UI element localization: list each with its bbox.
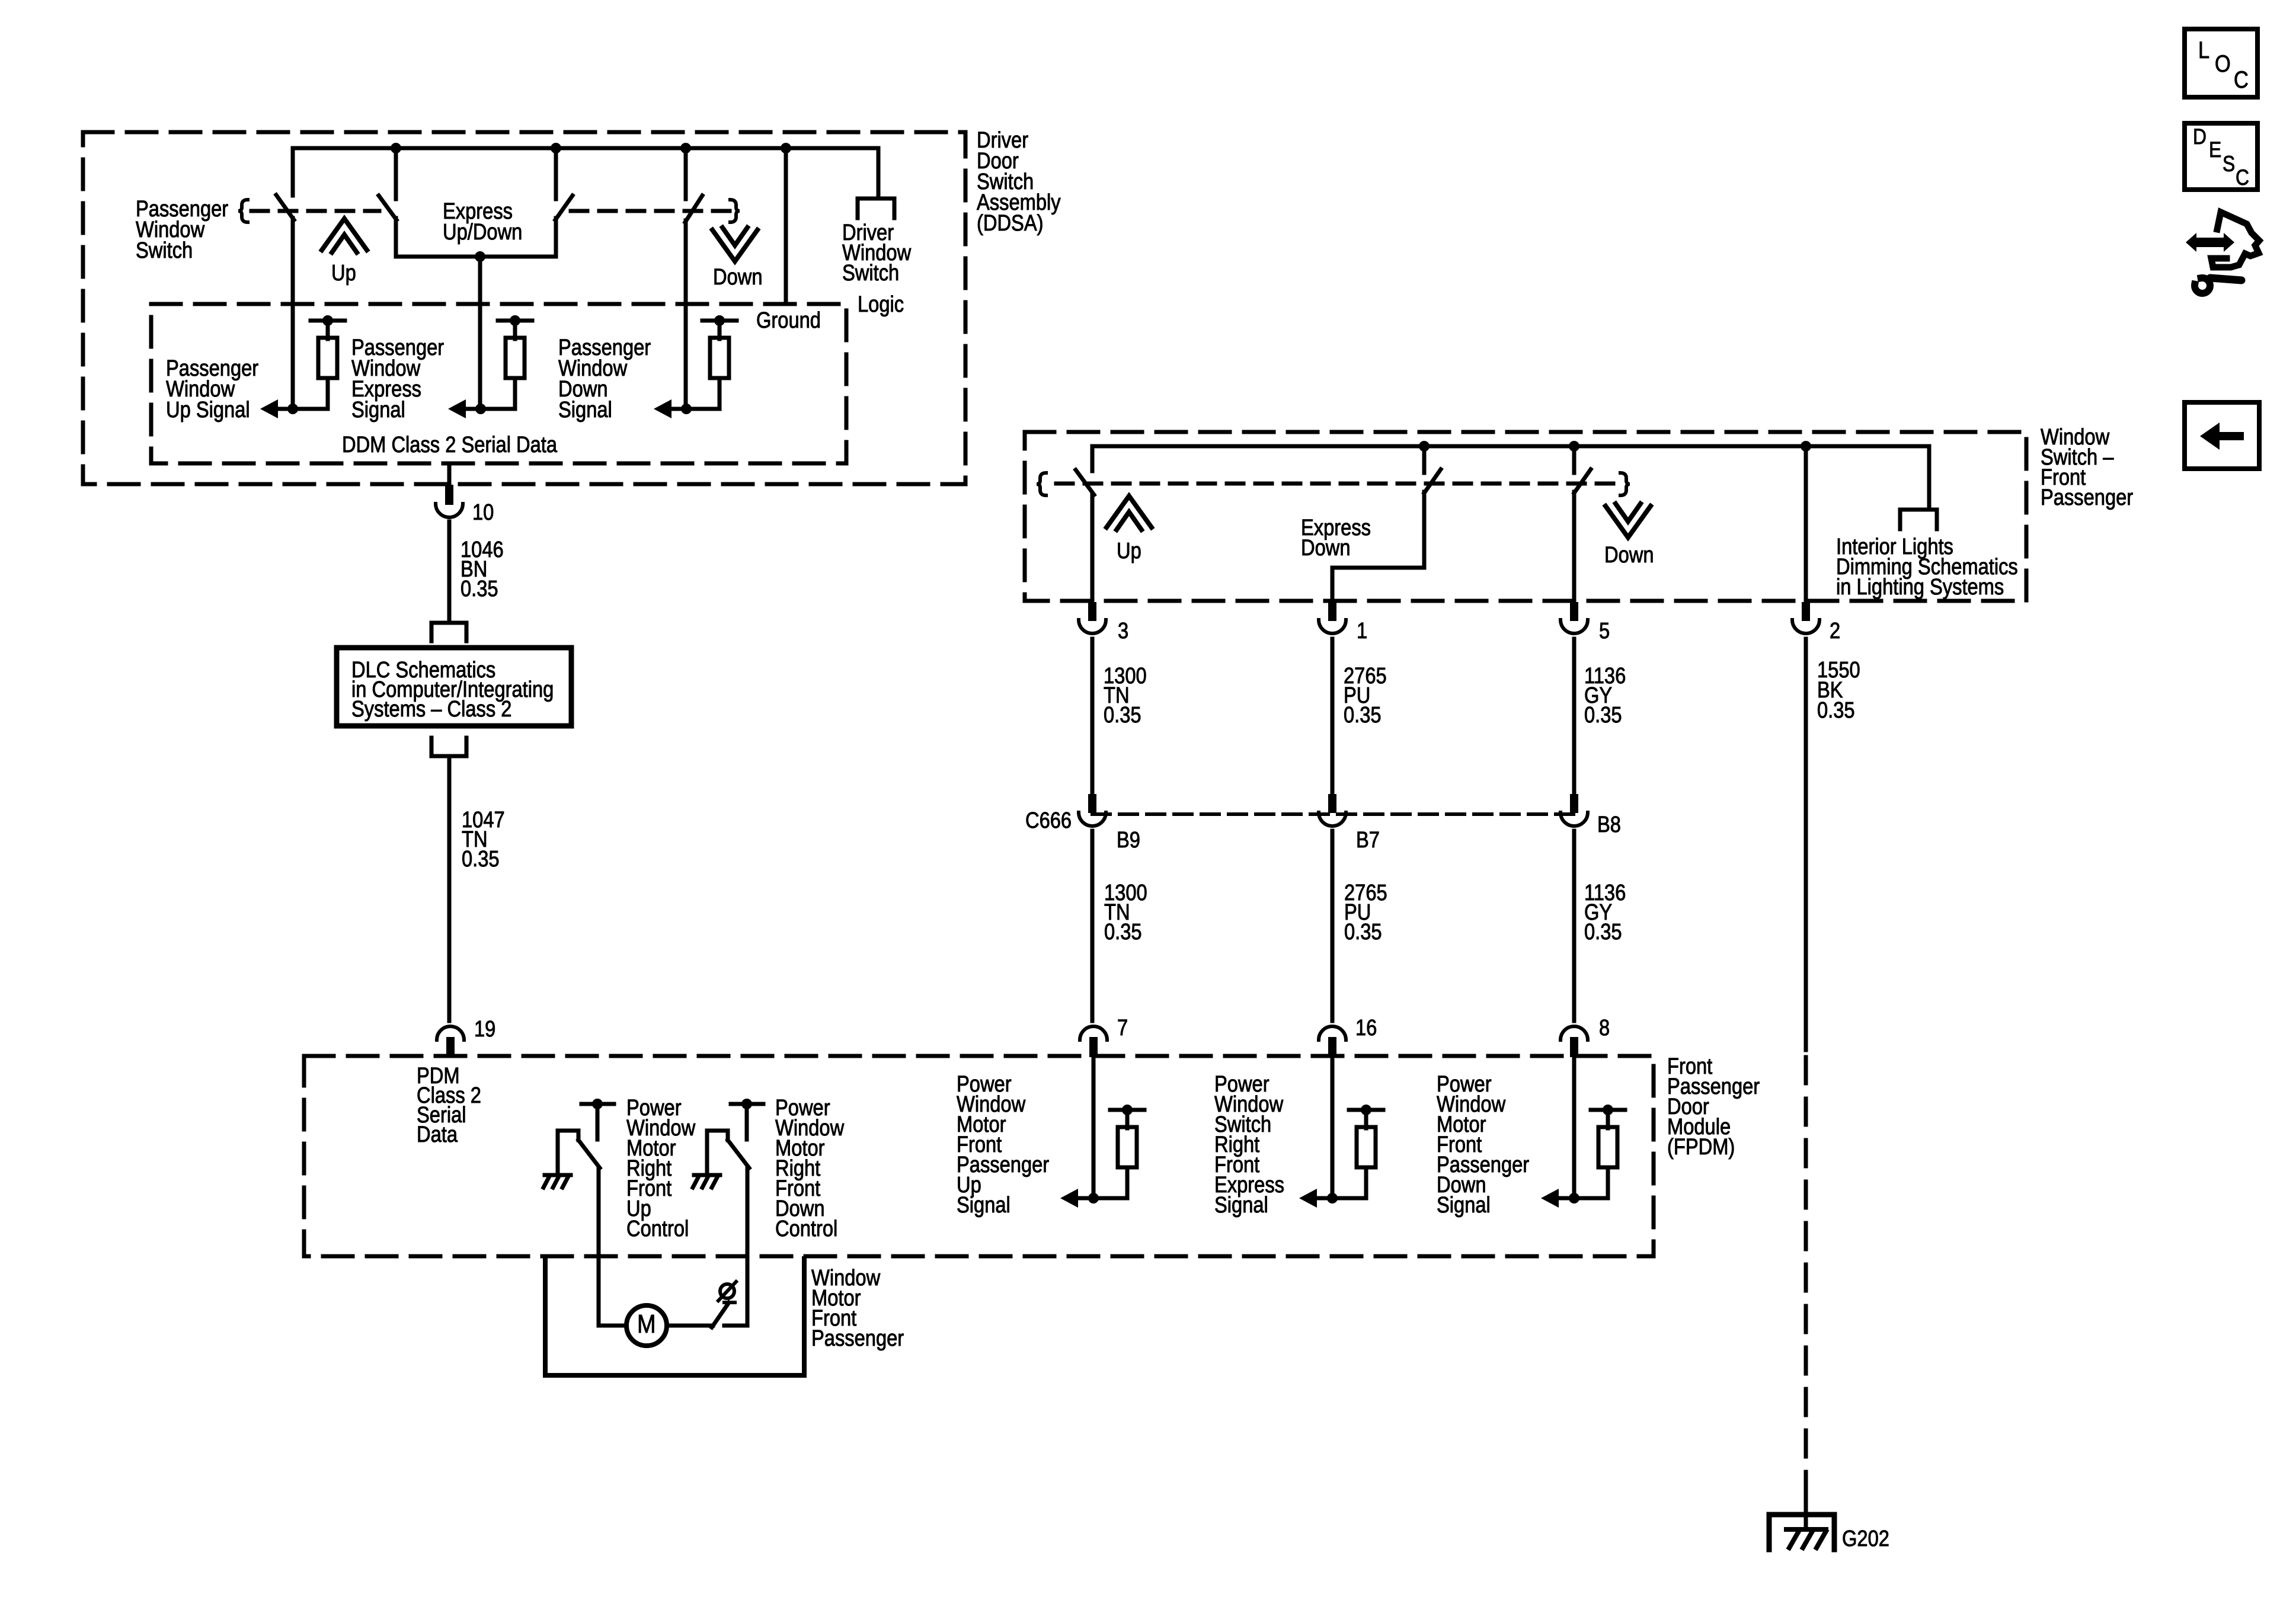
arrow passenger window down signal [654,399,671,418]
svg-text:0.35: 0.35 [1584,702,1622,728]
pin 8 connector [1560,1026,1588,1040]
motor M window motor front passenger [626,1305,667,1346]
bus wire window switch [1092,444,1929,449]
up arrow chevron window switch [1107,496,1152,527]
pin 10 connector [436,504,463,517]
wire 2765 PU lower [1331,831,1335,1021]
svg-text:0.35: 0.35 [462,846,500,872]
svg-text:Signal: Signal [1437,1192,1491,1218]
express up/down switch right side [554,148,558,199]
express box bottom wire [396,255,556,259]
pin 1 connector [1319,620,1346,633]
svg-text:Passenger: Passenger [2041,485,2133,510]
connector bracket above DLC box [431,623,466,641]
svg-text:0.35: 0.35 [1344,919,1382,945]
interior lights symbol [1900,510,1937,529]
connector bracket below DLC box [431,738,466,756]
wire thermal switch to down control [724,1324,747,1328]
svg-text:C: C [2236,166,2249,190]
svg-text:O: O [2215,50,2231,77]
svg-text:3: 3 [1118,618,1128,644]
resistor passenger window up signal [311,319,345,323]
signal wire pin into FPDM x=1845 [1092,1057,1096,1198]
brace left DDSA [238,200,248,222]
brace left window switch [1037,473,1046,495]
svg-text:Up/Down: Up/Down [443,219,522,245]
arrow Power Window Motor Front Passenger Up Signal [1060,1189,1078,1208]
wrench repair icon [2195,278,2210,293]
pin 5 male stub [1570,602,1578,621]
svg-text:M: M [637,1309,656,1338]
ground Power Window Motor Right Front Up Control [545,1173,571,1177]
Power Window Motor Right Front Up Control contact [581,1102,614,1106]
junction bus at pin 2 wire [1801,441,1811,452]
pin 1 male stub [1328,602,1336,621]
wire 1550 BK dashed to ground [1804,1057,1808,1505]
svg-text:G202: G202 [1842,1526,1889,1551]
C666 male stub [1328,794,1336,813]
pin 7 connector [1080,1026,1107,1040]
svg-text:8: 8 [1599,1015,1610,1041]
svg-text:5: 5 [1599,618,1610,644]
junction Power Window Motor Front Passenger Down Signal [1569,1193,1579,1204]
svg-text:Signal: Signal [558,397,612,422]
svg-text:10: 10 [472,500,494,525]
svg-text:Down: Down [1301,535,1351,561]
hand outline repair icon [2211,212,2259,267]
svg-text:Signal: Signal [1214,1192,1268,1218]
ground G202 symbol [1769,1515,1834,1550]
DESC icon box [2185,123,2257,190]
motor loop wire [545,1259,804,1375]
pin 3 connector [1079,620,1106,633]
FPDM Front Passenger Door Module dashed box [304,1056,1654,1256]
svg-text:Up: Up [1117,538,1141,564]
resistor passenger window express signal [498,319,532,323]
svg-text:Passenger: Passenger [811,1326,904,1351]
svg-text:Down: Down [713,264,763,290]
pin 2 male stub [1802,602,1810,621]
svg-text:Data: Data [417,1122,458,1147]
svg-text:Switch: Switch [136,238,193,263]
junction down signal [681,404,692,414]
junction on bus at ground wire [781,143,791,153]
svg-text:DDM Class 2 Serial Data: DDM Class 2 Serial Data [342,432,557,457]
wire 1550 BK solid [1804,639,1808,1050]
svg-text:Control: Control [626,1216,689,1241]
svg-text:0.35: 0.35 [1104,702,1141,728]
junction up signal [287,404,298,414]
junction on bus at express right [551,143,561,153]
down arrow chevron DDSA [712,230,757,261]
wire motor to thermal switch [667,1324,713,1328]
thermal switch blade [712,1302,729,1327]
C666 male stub [1088,794,1096,813]
express up/down switch left side [394,148,398,199]
resistor Power Window Motor Front Passenger Down Signal [1591,1108,1625,1112]
pin 3 male stub [1088,602,1096,621]
down arrow chevron window switch [1606,506,1651,537]
svg-text:0.35: 0.35 [1104,919,1142,945]
C666 connector row dashed line [1092,812,1574,816]
wire 1136 GY lower [1572,831,1576,1021]
svg-text:Switch: Switch [842,260,899,286]
svg-text:Up Signal: Up Signal [166,397,250,422]
svg-text:Logic: Logic [858,292,904,317]
signal wire pin into FPDM x=2656 [1572,1057,1576,1198]
wire down control to motor circuit [746,1168,750,1326]
driver window switch logic symbol [858,199,894,218]
svg-text:(DDSA): (DDSA) [977,210,1044,236]
svg-text:Down: Down [1604,542,1654,568]
junction express signal [475,404,486,414]
svg-text:C666: C666 [1025,808,1072,833]
thermal protector circle slash [720,1284,734,1298]
pin 19 male stub [446,1037,455,1057]
bus wire DDSA [293,146,878,151]
mechanical coupling dashed line DDSA left [251,209,379,213]
wire bus to interior lights [1927,446,1932,510]
wire 1047 TN [447,756,452,1021]
pin 19 connector [437,1026,464,1040]
svg-text:Signal: Signal [957,1192,1011,1218]
resistor Power Window Switch Right Front Express Signal [1349,1108,1383,1112]
wire express to DDM [478,257,482,409]
up switch window switch front passenger [1091,446,1095,471]
svg-text:Ground: Ground [756,308,821,333]
svg-text:B7: B7 [1356,827,1380,853]
svg-text:Signal: Signal [351,397,405,422]
express down switch [1422,447,1427,473]
arrow passenger window express signal [448,399,466,418]
Window Switch Front Passenger dashed box [1025,432,2026,601]
pin 7 male stub [1089,1037,1098,1057]
svg-text:1: 1 [1357,618,1367,644]
svg-text:0.35: 0.35 [1584,919,1622,945]
ground Power Window Motor Right Front Down Control [694,1173,720,1177]
resistor Power Window Motor Front Passenger Up Signal [1110,1108,1144,1112]
DDSA Driver Door Switch Assembly dashed box [83,132,965,484]
arrow Power Window Switch Right Front Express Signal [1299,1189,1317,1208]
pin 8 male stub [1570,1037,1578,1057]
pin 16 connector [1319,1026,1346,1040]
ground wire DDSA [784,148,788,304]
svg-text:in Lighting Systems: in Lighting Systems [1836,574,2004,600]
DDM inner dashed box [151,304,846,463]
svg-text:D: D [2193,125,2207,149]
junction bus at down switch [1569,441,1579,452]
svg-text:Control: Control [775,1216,837,1241]
resistor passenger window down signal [702,319,737,323]
svg-text:2: 2 [1830,618,1840,644]
junction Power Window Motor Front Passenger Up Signal [1088,1193,1099,1204]
brace right DDSA [730,200,740,222]
signal wire pin into FPDM x=2248 [1331,1057,1335,1198]
wire bus to pin 2 [1804,446,1808,602]
back arrow icon box [2185,402,2259,469]
svg-text:Systems – Class 2: Systems – Class 2 [351,696,511,722]
pin 5 connector [1560,620,1588,633]
double arrow repair icon [2186,233,2234,252]
serial data wire [447,463,452,486]
wire up control to motor [597,1168,601,1326]
DLC Schematics box [337,648,571,726]
C666 connector half [1560,812,1588,826]
junction bus at express down [1419,441,1430,452]
svg-text:0.35: 0.35 [1817,697,1855,723]
svg-text:B8: B8 [1597,812,1621,837]
wire bus to driver window switch logic [877,148,881,199]
junction Power Window Switch Right Front Express Signal [1327,1193,1338,1204]
junction on bus at down switch [680,143,691,153]
svg-text:19: 19 [474,1016,495,1042]
svg-text:B9: B9 [1117,827,1140,853]
pin 16 male stub [1328,1037,1336,1057]
junction on bus at express left [391,143,401,153]
mechanical coupling dashed line DDSA right [571,209,730,213]
LOC icon box [2185,29,2257,97]
pin 10 male stub [445,485,453,505]
svg-text:E: E [2209,138,2221,162]
arrow Power Window Motor Front Passenger Down Signal [1541,1189,1559,1208]
svg-text:7: 7 [1117,1015,1128,1041]
wire 1300 TN lower [1091,831,1095,1021]
wire 2765 PU upper [1331,639,1335,795]
svg-text:0.35: 0.35 [1344,702,1382,728]
C666 male stub [1570,794,1578,813]
wire 1136 GY upper [1572,639,1576,795]
ground lead [1804,1498,1808,1529]
up arrow chevron DDSA [322,219,367,250]
svg-text:L: L [2198,37,2209,63]
passenger window down switch [684,148,688,199]
arrow passenger window up signal [260,399,278,418]
junction express bottom [475,251,485,262]
C666 connector half [1079,812,1106,826]
wire 1300 TN upper [1091,639,1095,795]
mechanical coupling dashed line window switch [1056,482,1616,486]
down switch window switch front passenger [1572,447,1576,473]
svg-text:(FPDM): (FPDM) [1667,1134,1735,1160]
svg-text:0.35: 0.35 [461,576,498,601]
pin 2 connector [1792,620,1819,633]
svg-text:S: S [2223,152,2235,177]
passenger window up switch [291,148,295,196]
svg-text:16: 16 [1355,1015,1377,1041]
C666 connector half [1319,812,1346,826]
svg-text:Up: Up [331,260,356,286]
wire 1046 BN [447,521,452,623]
Power Window Motor Right Front Down Control contact [731,1102,763,1106]
brace right window switch [1620,473,1630,495]
svg-text:C: C [2234,66,2249,93]
